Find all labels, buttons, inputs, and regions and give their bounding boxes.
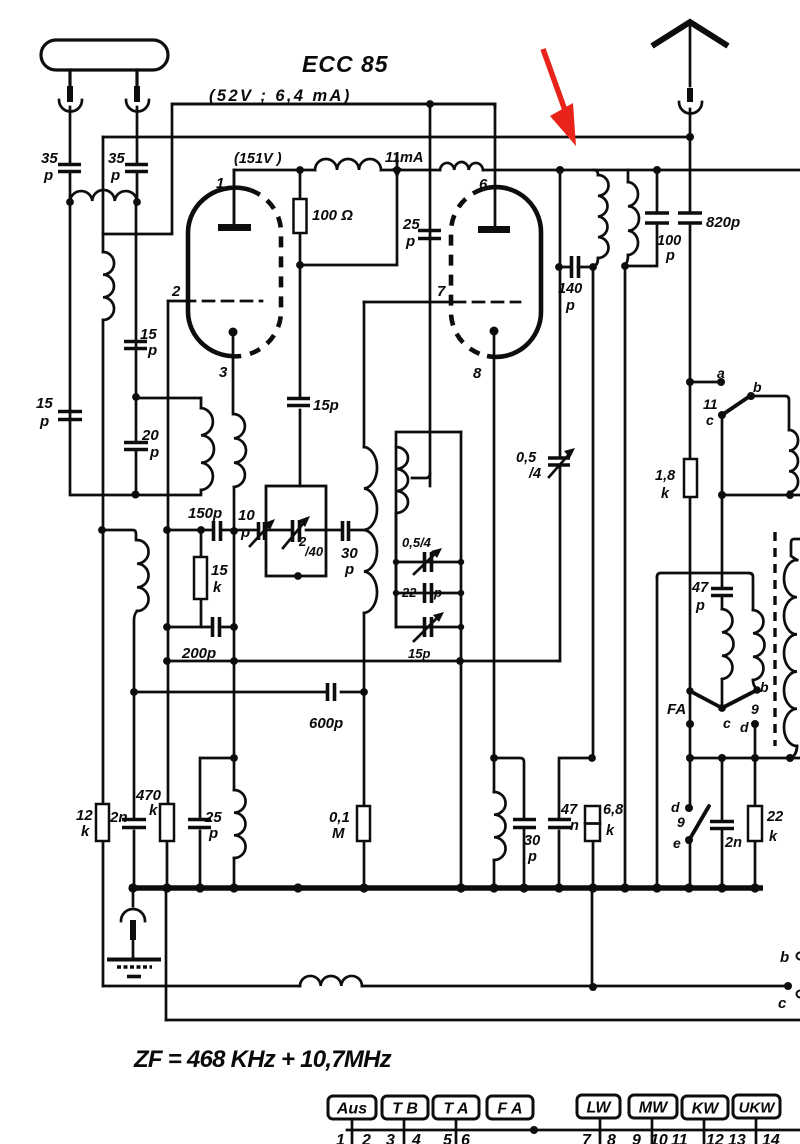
grid 7 line bbox=[364, 301, 452, 304]
svg-text:8: 8 bbox=[607, 1132, 616, 1144]
red annotation arrow bbox=[543, 49, 566, 113]
svg-text:7: 7 bbox=[582, 1132, 592, 1144]
svg-text:150p: 150p bbox=[188, 505, 222, 522]
resistor 22k bbox=[748, 806, 762, 841]
svg-text:k: k bbox=[213, 579, 222, 596]
svg-text:30: 30 bbox=[524, 833, 540, 849]
capacitor 820p bbox=[678, 213, 702, 223]
svg-text:d: d bbox=[671, 799, 680, 815]
trimmer 2/40 bbox=[293, 520, 300, 542]
svg-text:6: 6 bbox=[461, 1132, 470, 1144]
FM tuner box bbox=[396, 432, 461, 627]
svg-text:13: 13 bbox=[728, 1132, 746, 1144]
svg-text:12: 12 bbox=[706, 1132, 724, 1144]
svg-text:T A: T A bbox=[443, 1101, 468, 1118]
svg-text:14: 14 bbox=[762, 1132, 780, 1144]
svg-text:1: 1 bbox=[336, 1132, 345, 1144]
svg-text:LW: LW bbox=[587, 1100, 613, 1117]
svg-text:11mA: 11mA bbox=[385, 150, 423, 166]
svg-text:Aus: Aus bbox=[336, 1101, 367, 1118]
svg-text:p: p bbox=[110, 167, 120, 184]
svg-text:a: a bbox=[717, 365, 725, 381]
tube V1 envelope solid left arc bbox=[188, 188, 250, 357]
resistor 100 ohm bbox=[299, 170, 302, 486]
tube V2 envelope dashed left arc bbox=[451, 189, 487, 356]
svg-text:p: p bbox=[240, 524, 250, 541]
svg-text:9: 9 bbox=[751, 701, 759, 717]
svg-text:2n: 2n bbox=[724, 835, 742, 851]
capacitor 150p bbox=[214, 521, 221, 541]
pushbutton TA bbox=[433, 1096, 479, 1119]
svg-text:0,5: 0,5 bbox=[516, 450, 537, 466]
svg-text:4: 4 bbox=[411, 1132, 421, 1144]
capacitor 35p left bbox=[58, 165, 81, 172]
capacitor 200p bbox=[167, 626, 234, 629]
svg-text:6: 6 bbox=[479, 176, 488, 193]
svg-text:15: 15 bbox=[211, 562, 228, 579]
resistor 1,8k bbox=[684, 459, 697, 497]
svg-text:p: p bbox=[565, 298, 575, 314]
svg-text:12: 12 bbox=[76, 807, 93, 824]
detector coil B bbox=[753, 610, 765, 680]
grid 1 dashed line bbox=[168, 300, 182, 303]
svg-text:35: 35 bbox=[41, 150, 58, 167]
svg-text:c: c bbox=[778, 995, 787, 1012]
FM IF secondary coil bbox=[627, 170, 630, 182]
antenna plug connector left bbox=[59, 100, 82, 112]
cathode V2 bbox=[490, 327, 499, 336]
trimmer 10p bbox=[259, 522, 265, 540]
svg-text:600p: 600p bbox=[309, 715, 343, 732]
svg-text:/40: /40 bbox=[304, 544, 324, 559]
svg-text:ECC 85: ECC 85 bbox=[302, 51, 389, 77]
svg-text:b: b bbox=[760, 679, 769, 695]
switch 9 bbox=[685, 804, 693, 812]
svg-text:p: p bbox=[39, 413, 49, 430]
svg-text:n: n bbox=[570, 818, 579, 834]
svg-text:p: p bbox=[344, 561, 354, 578]
svg-text:200p: 200p bbox=[181, 645, 216, 662]
svg-text:2: 2 bbox=[171, 283, 181, 300]
svg-text:1: 1 bbox=[216, 175, 224, 192]
svg-text:k: k bbox=[606, 823, 615, 839]
line y=758 bbox=[690, 757, 800, 760]
wire left antenna downlead bbox=[70, 107, 199, 495]
tube V2 envelope solid right arc bbox=[483, 187, 541, 357]
svg-text:e: e bbox=[673, 835, 681, 851]
capacitor 15p left column bbox=[58, 412, 82, 420]
svg-text:10: 10 bbox=[650, 1132, 668, 1144]
cathode V1 bbox=[229, 328, 238, 337]
svg-text:15: 15 bbox=[36, 395, 53, 412]
svg-text:/4: /4 bbox=[528, 466, 541, 482]
capacitor 15p on grid2 line bbox=[287, 399, 310, 406]
svg-text:UKW: UKW bbox=[739, 1100, 777, 1117]
svg-text:p: p bbox=[149, 444, 159, 461]
47n branch bbox=[559, 758, 592, 888]
svg-text:k: k bbox=[661, 486, 670, 502]
svg-text:25: 25 bbox=[402, 216, 420, 233]
pushbutton LW bbox=[577, 1095, 620, 1118]
svg-text:9: 9 bbox=[632, 1132, 641, 1144]
svg-text:FA: FA bbox=[667, 701, 686, 718]
FM IF primary coil bbox=[594, 170, 598, 175]
resistor 0,1M bbox=[357, 806, 370, 841]
svg-text:ZF = 468 KHz + 10,7MHz: ZF = 468 KHz + 10,7MHz bbox=[133, 1046, 392, 1073]
wire right antenna downlead bbox=[136, 107, 137, 495]
svg-text:MW: MW bbox=[639, 1100, 669, 1117]
capacitor 25p anode bbox=[429, 104, 432, 486]
FM antenna symbol bbox=[652, 22, 728, 46]
svg-text:22: 22 bbox=[766, 809, 783, 825]
trimmer line 2 22p bbox=[396, 592, 461, 595]
trimmer 0,5/4 middle bbox=[548, 458, 570, 465]
detector coil A bbox=[722, 609, 734, 679]
svg-text:d: d bbox=[740, 719, 749, 735]
switch-11 coil branch bbox=[753, 396, 789, 430]
RF choke coil 1 bbox=[315, 159, 381, 170]
svg-text:(151V ): (151V ) bbox=[234, 151, 282, 167]
svg-text:100 Ω: 100 Ω bbox=[312, 207, 353, 224]
wire x=560 bbox=[559, 170, 560, 661]
svg-text:11: 11 bbox=[671, 1132, 688, 1144]
svg-text:10: 10 bbox=[238, 507, 255, 524]
svg-text:p: p bbox=[695, 598, 705, 614]
svg-text:b: b bbox=[780, 949, 789, 966]
resistor 6,8k bbox=[585, 806, 600, 841]
svg-text:820p: 820p bbox=[706, 214, 740, 231]
svg-text:p: p bbox=[433, 585, 442, 600]
svg-text:5: 5 bbox=[443, 1132, 453, 1144]
svg-text:3: 3 bbox=[219, 364, 228, 381]
resistor 470k bbox=[160, 804, 174, 841]
trimmer line 3 15p bbox=[396, 626, 461, 629]
svg-text:20: 20 bbox=[141, 427, 159, 444]
svg-text:p: p bbox=[527, 849, 537, 865]
svg-text:p: p bbox=[43, 167, 53, 184]
svg-text:KW: KW bbox=[692, 1101, 721, 1118]
anode plate V1 bbox=[218, 224, 251, 231]
supply line (52V ; 6,4mA) y=104 bbox=[103, 104, 495, 234]
core dashed bbox=[773, 532, 776, 746]
svg-text:15p: 15p bbox=[408, 646, 430, 661]
capacitor 100p bbox=[625, 170, 657, 266]
svg-text:c: c bbox=[723, 715, 731, 731]
svg-text:2n: 2n bbox=[109, 809, 128, 826]
antenna plug connector right bbox=[126, 100, 149, 112]
svg-text:p: p bbox=[405, 233, 415, 250]
svg-text:c: c bbox=[706, 412, 714, 428]
switch blades bbox=[686, 687, 694, 695]
osc transformer left winding bbox=[200, 398, 203, 408]
pushbutton FA bbox=[487, 1096, 533, 1119]
secondary big coil bbox=[791, 539, 800, 560]
tube V1 envelope dashed right arc bbox=[241, 190, 281, 356]
resistor 15k bbox=[200, 530, 203, 627]
osc transformer right winding (cathode) bbox=[234, 414, 246, 487]
svg-text:0,1: 0,1 bbox=[329, 809, 350, 826]
svg-text:k: k bbox=[149, 802, 158, 819]
left border vertical x=103 bbox=[102, 137, 105, 986]
svg-text:0,5/4: 0,5/4 bbox=[402, 535, 432, 550]
svg-text:25: 25 bbox=[204, 809, 222, 826]
capacitor 20p bbox=[124, 443, 148, 450]
coil on box left edge bbox=[396, 447, 408, 513]
capacitor 47p bbox=[711, 589, 733, 596]
svg-text:7: 7 bbox=[437, 283, 446, 300]
svg-text:2: 2 bbox=[361, 1132, 371, 1144]
capacitor 25p with coil bbox=[200, 758, 234, 888]
svg-text:140: 140 bbox=[558, 281, 582, 297]
svg-text:3: 3 bbox=[386, 1132, 395, 1144]
capacitor 35p right bbox=[125, 165, 148, 172]
svg-text:47: 47 bbox=[691, 580, 709, 596]
svg-text:p: p bbox=[665, 248, 675, 264]
svg-text:M: M bbox=[332, 825, 345, 842]
capacitor 15p on x136 line bbox=[124, 342, 147, 349]
horizontal line y=137 bbox=[103, 136, 690, 139]
RF choke coil 2 bbox=[440, 162, 483, 170]
line y=661 bbox=[167, 660, 559, 663]
pushbutton TB bbox=[382, 1096, 428, 1119]
svg-text:15: 15 bbox=[140, 326, 157, 343]
line y=692 with 600p bbox=[134, 691, 364, 694]
svg-text:6,8: 6,8 bbox=[603, 802, 624, 818]
oscillator grid line y=530 bbox=[167, 529, 366, 532]
svg-text:15p: 15p bbox=[313, 397, 339, 414]
bottom line y=986 with coil bbox=[103, 985, 788, 988]
svg-text:k: k bbox=[81, 823, 90, 840]
grid 2 vertical line bbox=[166, 301, 168, 1020]
wire y=530 from border bbox=[102, 530, 136, 540]
svg-text:100: 100 bbox=[657, 233, 681, 249]
svg-text:47: 47 bbox=[560, 802, 578, 818]
svg-text:30: 30 bbox=[341, 545, 358, 562]
oscillator coil bbox=[363, 302, 366, 447]
trimmer 30p right of box bbox=[343, 521, 349, 541]
chassis ground symbol bbox=[132, 888, 135, 906]
svg-text:35: 35 bbox=[108, 150, 125, 167]
svg-text:p: p bbox=[147, 342, 157, 359]
loop y=573 bbox=[657, 573, 753, 610]
capacitor 2n right bbox=[721, 758, 724, 888]
svg-text:11: 11 bbox=[703, 396, 718, 412]
svg-text:p: p bbox=[208, 825, 218, 842]
dipole antenna symbol (T antenna) bbox=[41, 40, 168, 70]
capacitor 2n bbox=[122, 820, 146, 828]
wire x=593 down bbox=[592, 267, 593, 987]
pushbutton UKW bbox=[733, 1095, 780, 1118]
svg-text:9: 9 bbox=[677, 814, 685, 830]
pushbutton KW bbox=[682, 1096, 728, 1119]
cathode coupling coil bbox=[233, 758, 236, 790]
svg-text:1,8: 1,8 bbox=[655, 468, 676, 484]
coil on x136 line bbox=[137, 540, 149, 611]
resistor 12k on border bbox=[96, 804, 109, 841]
svg-text:22: 22 bbox=[401, 585, 417, 600]
svg-text:T B: T B bbox=[392, 1101, 418, 1118]
svg-text:k: k bbox=[769, 829, 778, 845]
svg-text:b: b bbox=[753, 379, 762, 395]
ground bus bbox=[129, 885, 763, 891]
coil on left border bbox=[103, 252, 114, 320]
svg-text:F A: F A bbox=[497, 1101, 522, 1118]
pushbutton Aus bbox=[328, 1096, 376, 1119]
horizontal y=398 bbox=[136, 397, 201, 400]
trimmer line 1 0,5/4 bbox=[396, 561, 461, 564]
anode tank line y=170 bbox=[234, 169, 800, 172]
wire x=690 bbox=[689, 109, 692, 888]
pushbutton MW bbox=[629, 1095, 677, 1118]
11mA current arrow bbox=[396, 154, 399, 168]
box right edge down to bus bbox=[460, 432, 463, 888]
pin 6 anode lead bbox=[492, 104, 495, 228]
svg-text:8: 8 bbox=[473, 365, 482, 382]
antenna input coil bbox=[70, 190, 137, 201]
bottom line y=1020 bbox=[166, 1019, 800, 1022]
switch contact strip line bbox=[347, 1129, 800, 1132]
capacitor 140p bbox=[555, 263, 563, 271]
oscillator trimmer box bbox=[266, 486, 326, 576]
svg-text:(52V ; 6,4 mA): (52V ; 6,4 mA) bbox=[209, 87, 352, 105]
pin 1 anode lead bbox=[233, 170, 236, 224]
